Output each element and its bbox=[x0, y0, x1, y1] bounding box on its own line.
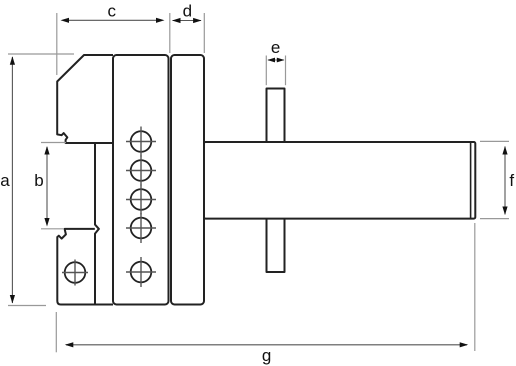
hole H6 crosshair bbox=[62, 260, 88, 286]
svg-text:f: f bbox=[509, 171, 514, 190]
extension line c/d middle bbox=[169, 13, 171, 53]
cross pin lower bbox=[267, 219, 285, 272]
svg-text:g: g bbox=[262, 346, 271, 365]
dimension c arrows bbox=[61, 18, 165, 23]
svg-text:b: b bbox=[34, 171, 43, 190]
shaft end chamfer line bbox=[470, 143, 472, 219]
svg-text:e: e bbox=[271, 38, 280, 57]
extension line d right bbox=[203, 13, 205, 53]
extension line c left bbox=[56, 13, 58, 75]
hole H3 bbox=[131, 189, 152, 210]
hole H6 (lower-left) bbox=[65, 262, 86, 283]
dimension g line bbox=[66, 344, 467, 346]
hole H4 bbox=[131, 218, 152, 239]
dimension g arrows bbox=[65, 342, 468, 347]
hole H2 bbox=[131, 160, 152, 181]
dimension b line bbox=[46, 147, 48, 225]
extension lines e bbox=[265, 56, 267, 86]
svg-text:a: a bbox=[0, 171, 10, 190]
hole H1 crosshair bbox=[126, 127, 156, 157]
extension line a top bbox=[8, 53, 74, 55]
dimension d line bbox=[173, 20, 201, 22]
extension line a bottom bbox=[8, 305, 46, 307]
hole H3 crosshair bbox=[126, 185, 156, 215]
extension line g right bbox=[474, 223, 476, 351]
dimension e line bbox=[268, 59, 284, 61]
hole H5 crosshair bbox=[126, 257, 156, 287]
extension line g left bbox=[55, 312, 57, 352]
bolt slab B (with holes) bbox=[113, 55, 169, 305]
dimension c line bbox=[63, 19, 162, 21]
extension line b bottom bbox=[41, 228, 64, 230]
dimension a arrows bbox=[10, 56, 15, 303]
hole H2 crosshair bbox=[126, 156, 156, 186]
dimension d arrows bbox=[172, 18, 202, 23]
shaft body bbox=[204, 142, 475, 219]
dimension f arrows bbox=[502, 146, 507, 215]
slab C bbox=[171, 55, 204, 305]
dimension a line bbox=[11, 57, 13, 303]
svg-text:d: d bbox=[183, 2, 192, 21]
clamp upper block outline bbox=[57, 55, 113, 143]
svg-text:c: c bbox=[108, 2, 117, 21]
hole H5 bbox=[131, 262, 152, 283]
clamp mid vertical edge with pointer notch bbox=[95, 143, 99, 304]
clamp lower block outline bbox=[57, 229, 113, 305]
extension lines f bbox=[480, 140, 509, 142]
dimension b arrows bbox=[44, 146, 49, 227]
dimension e arrows bbox=[267, 58, 284, 63]
dimension f line bbox=[504, 147, 506, 215]
hole H4 crosshair bbox=[126, 213, 156, 243]
cross pin upper bbox=[267, 89, 285, 143]
hole H1 bbox=[131, 131, 152, 152]
extension line b top bbox=[41, 142, 66, 144]
